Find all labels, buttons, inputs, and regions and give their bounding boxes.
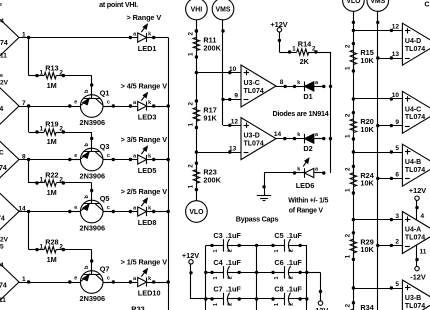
- resistor R29 10K: [344, 231, 374, 261]
- wire: VMS rail right: [377, 11, 379, 310]
- wire: R19 to Q3 base: [63, 132, 91, 134]
- op-amp output pin 8 (left column, partially cut): [0, 139, 26, 179]
- wire: cap row 3 right: [257, 298, 273, 300]
- svg-text:13: 13: [392, 51, 400, 58]
- op-amp U3-B TL074: [402, 280, 430, 310]
- svg-text:2: 2: [59, 69, 63, 76]
- wire: VMS to op-amp pin 9: [376, 124, 379, 127]
- net label VMS: [212, 0, 234, 20]
- wire: op-amp out row 5: [19, 282, 70, 284]
- svg-text:LED10: LED10: [138, 289, 161, 298]
- svg-text:e: e: [74, 276, 77, 282]
- op-amp output pin 1 (left column, partially cut): [0, 17, 26, 57]
- wire: drop to R28: [28, 212, 30, 250]
- svg-text:C: C: [0, 150, 4, 157]
- svg-text:Q7: Q7: [100, 265, 110, 274]
- svg-text:VMS: VMS: [216, 7, 231, 14]
- wire: op-amp out row 2: [19, 106, 70, 108]
- svg-text:.1uF: .1uF: [226, 285, 242, 294]
- resistor R17 91K: [187, 99, 217, 129]
- wire: caps left rail: [205, 245, 207, 310]
- capacitor C7 .1uF: [210, 285, 241, 307]
- svg-text:Q3: Q3: [100, 142, 110, 151]
- svg-text:> 1/5 Range V: > 1/5 Range V: [121, 257, 168, 266]
- svg-text:k: k: [297, 167, 300, 173]
- svg-text:e: e: [0, 73, 3, 79]
- svg-text:TL074: TL074: [244, 88, 264, 95]
- svg-text:C5: C5: [274, 231, 283, 240]
- svg-text:TL074: TL074: [405, 303, 425, 310]
- svg-text:2: 2: [228, 303, 234, 306]
- resistor R20 10K: [344, 111, 374, 141]
- svg-text:-12V: -12V: [313, 306, 329, 310]
- svg-text:1: 1: [40, 177, 44, 184]
- wire: cap row 3 left: [206, 298, 212, 300]
- svg-text:1: 1: [187, 123, 194, 127]
- svg-text:200K: 200K: [203, 43, 221, 52]
- svg-text:2N3906: 2N3906: [80, 171, 106, 180]
- svg-text:U4-A: U4-A: [405, 227, 421, 234]
- wire: op-amp out row 4: [19, 211, 70, 213]
- svg-text:10K: 10K: [360, 179, 374, 188]
- svg-text:TL074: TL074: [405, 167, 425, 174]
- svg-text:U3-D: U3-D: [244, 133, 260, 140]
- svg-text:-12V: -12V: [410, 272, 426, 281]
- wire: cap row 1 left: [206, 245, 212, 247]
- wire: +12V to caps rail: [190, 264, 192, 299]
- wire: op-amp out row 1: [19, 37, 130, 39]
- wire: VMS to U3-D pin 12: [223, 125, 241, 127]
- svg-text:LED5: LED5: [138, 166, 157, 175]
- svg-text:e: e: [74, 100, 77, 106]
- svg-text:TL074: TL074: [405, 114, 425, 121]
- svg-text:2: 2: [344, 167, 351, 171]
- svg-text:C7: C7: [213, 285, 222, 294]
- capacitor C8 .1uF: [271, 285, 302, 307]
- wire: drop to R19: [28, 106, 30, 132]
- op-amp U3-D TL074: [241, 118, 276, 160]
- svg-text:R13: R13: [45, 63, 58, 72]
- svg-text:.1uF: .1uF: [226, 258, 242, 267]
- resistor R34 10K: [344, 301, 356, 310]
- svg-text:LED8: LED8: [138, 218, 157, 227]
- node: D2 junction: [329, 137, 332, 140]
- svg-text:k: k: [297, 80, 300, 86]
- svg-text:> 3/5 Range V: > 3/5 Range V: [121, 135, 168, 144]
- op-amp U4-D TL074: [402, 23, 430, 65]
- svg-text:R19: R19: [45, 120, 58, 129]
- svg-text:VLO: VLO: [346, 0, 361, 5]
- svg-text:2: 2: [59, 126, 63, 133]
- svg-text:2N3906: 2N3906: [80, 118, 106, 127]
- svg-text:.1uF: .1uF: [226, 231, 242, 240]
- svg-text:1M: 1M: [47, 81, 57, 90]
- node: junction to U3-C pin 9: [221, 98, 224, 101]
- wire: U3-D output pin 14: [276, 138, 295, 140]
- svg-text:4: 4: [421, 213, 425, 220]
- svg-text:U4-D: U4-D: [405, 38, 421, 45]
- svg-text:VMS: VMS: [370, 0, 385, 5]
- wire: R28 to Q7 base: [63, 249, 91, 251]
- svg-text:1: 1: [40, 69, 44, 76]
- power terminal +12V middle: [277, 28, 281, 32]
- wire: VLO to op-amp pin 12: [352, 29, 355, 32]
- transistor Q1 2N3906: [68, 83, 115, 127]
- svg-text:12: 12: [392, 24, 400, 31]
- junction dots row 1: [255, 244, 258, 247]
- svg-text:k: k: [148, 205, 151, 211]
- svg-text:9: 9: [395, 119, 399, 126]
- svg-text:> 4/5 Range V: > 4/5 Range V: [121, 81, 168, 90]
- junction dots row 3: [255, 297, 258, 300]
- svg-text:74: 74: [0, 165, 7, 172]
- svg-text:c: c: [107, 153, 110, 159]
- wire: caps middle rail: [256, 245, 258, 310]
- svg-text:11: 11: [0, 53, 7, 60]
- svg-text:11: 11: [420, 249, 427, 256]
- wire: cap row 2 left: [206, 272, 212, 274]
- svg-text:4: 4: [0, 18, 4, 25]
- op-amp U3-C TL074: [241, 65, 276, 107]
- op-amp output pin 1 (left column, partially cut): [0, 262, 26, 302]
- svg-text:5: 5: [395, 145, 399, 152]
- svg-text:TL074: TL074: [405, 234, 425, 241]
- svg-text:7: 7: [22, 100, 26, 107]
- svg-text:1: 1: [187, 185, 194, 189]
- transistor Q7 2N3906: [68, 259, 115, 303]
- svg-text:LED6: LED6: [296, 181, 315, 190]
- svg-text:k: k: [148, 276, 151, 282]
- LED LED5: [129, 146, 157, 175]
- svg-text:1: 1: [40, 126, 44, 133]
- svg-text:Within +/- 1/5: Within +/- 1/5: [288, 198, 328, 205]
- LED LED1: [129, 24, 157, 53]
- svg-text:1: 1: [344, 188, 351, 192]
- op-amp U4-C TL074: [402, 91, 430, 133]
- svg-text:1: 1: [344, 66, 351, 70]
- svg-text:14: 14: [274, 131, 282, 138]
- wire: cap row 2 right: [257, 272, 273, 274]
- svg-text:e: e: [74, 205, 77, 211]
- svg-text:11: 11: [0, 297, 6, 304]
- svg-text:2: 2: [228, 249, 234, 252]
- wire: drop to R22: [28, 160, 30, 184]
- op-amp output pin 14 (left column, partially cut): [0, 191, 26, 231]
- wire: +12V to R14: [279, 32, 281, 52]
- wire: VMS to op-amp pin 2: [376, 244, 379, 247]
- svg-text:VLO: VLO: [189, 209, 204, 216]
- wire: LED to bus row 5: [154, 282, 169, 284]
- transistor Q3 2N3906: [68, 137, 115, 181]
- power terminal +12V caps: [189, 260, 193, 264]
- wire: VLO to op-amp pin 5: [352, 150, 355, 153]
- wire: R13 to Q1 base: [63, 75, 91, 77]
- capacitor C6 .1uF: [271, 258, 302, 280]
- svg-text:e: e: [74, 153, 77, 159]
- wire: VLO to op-amp pin 5: [352, 286, 355, 289]
- wire: VLO to op-amp pin 10: [352, 97, 355, 100]
- wire: Q3 collector to LED: [113, 159, 130, 161]
- svg-text:D1: D1: [303, 92, 312, 101]
- wire: LED to bus row 1: [154, 37, 169, 39]
- resistor R23 200K: [187, 162, 221, 192]
- resistor R13 1M: [35, 63, 65, 90]
- svg-text:1: 1: [187, 52, 194, 56]
- svg-text:2: 2: [344, 233, 351, 237]
- svg-text:.1uF: .1uF: [287, 231, 303, 240]
- svg-text:k: k: [148, 153, 151, 159]
- svg-text:2N3906: 2N3906: [80, 223, 106, 232]
- wire: VMS to op-amp pin 6: [376, 177, 379, 180]
- svg-text:Diodes are 1N914: Diodes are 1N914: [273, 109, 329, 118]
- svg-text:LED3: LED3: [138, 113, 157, 122]
- svg-text:k: k: [148, 31, 151, 37]
- resistor R14 2K: [288, 40, 318, 66]
- wire: LED to bus row 4: [154, 211, 169, 213]
- svg-text:Q1: Q1: [100, 89, 110, 98]
- svg-text:C4: C4: [213, 258, 223, 267]
- wire: R22 to Q5 base: [63, 182, 91, 184]
- svg-text:1M: 1M: [47, 188, 57, 197]
- wire: Q5 collector to LED: [113, 211, 130, 213]
- svg-text:e: e: [0, 2, 2, 8]
- net label VMS: [367, 0, 389, 11]
- svg-text:2: 2: [312, 46, 316, 53]
- ground: [257, 185, 271, 200]
- svg-text:R34: R34: [360, 303, 374, 310]
- resistor R22 1M: [35, 171, 65, 198]
- svg-text:10: 10: [229, 66, 237, 73]
- svg-text:13: 13: [229, 145, 237, 152]
- svg-text:9: 9: [234, 93, 238, 100]
- svg-text:2: 2: [187, 164, 194, 168]
- svg-text:1: 1: [292, 46, 296, 53]
- svg-text:+12V: +12V: [182, 251, 199, 260]
- wire: LED to bus row 2: [154, 106, 169, 108]
- svg-text:.1uF: .1uF: [287, 258, 303, 267]
- svg-text:2: 2: [59, 177, 63, 184]
- wire: U4-A pin 11 to -12V: [416, 245, 418, 267]
- svg-text:R28: R28: [45, 237, 58, 246]
- svg-text:U3-C: U3-C: [244, 80, 260, 87]
- svg-text:1: 1: [344, 134, 351, 138]
- svg-text:74: 74: [0, 216, 5, 223]
- svg-text:Bypass Caps: Bypass Caps: [236, 215, 279, 224]
- svg-text:c: c: [107, 100, 110, 106]
- svg-text:1: 1: [22, 276, 26, 283]
- net label VHI: [186, 0, 208, 20]
- wire: op-amp out row 3: [19, 159, 70, 161]
- svg-text:10: 10: [392, 92, 400, 99]
- LED LED3: [129, 93, 157, 122]
- svg-text:.1uF: .1uF: [287, 285, 303, 294]
- svg-text:5: 5: [395, 281, 399, 288]
- svg-text:c: c: [107, 205, 110, 211]
- svg-text:74: 74: [0, 283, 7, 290]
- svg-text:TL074: TL074: [244, 141, 264, 148]
- svg-text:2V: 2V: [0, 237, 9, 244]
- svg-text:10K: 10K: [360, 245, 374, 254]
- svg-text:2: 2: [228, 276, 234, 279]
- svg-text:5: 5: [0, 244, 4, 251]
- svg-text:6: 6: [395, 172, 399, 179]
- svg-text:4: 4: [0, 262, 4, 269]
- resistor R24 10K: [344, 165, 374, 195]
- svg-text:10K: 10K: [360, 125, 374, 134]
- diode LED6: [293, 167, 326, 190]
- LED LED10: [129, 269, 161, 298]
- svg-text:2: 2: [344, 44, 351, 48]
- svg-text:2: 2: [289, 249, 295, 252]
- node: junction to U3-D pin 13: [195, 150, 198, 153]
- diode D2: [293, 132, 326, 153]
- svg-text:c: c: [107, 276, 110, 282]
- wire: Q7 collector to LED: [113, 282, 130, 284]
- svg-text:C3: C3: [213, 231, 222, 240]
- svg-text:VHI: VHI: [191, 7, 203, 14]
- diode D1: [293, 80, 326, 101]
- svg-text:2: 2: [59, 243, 63, 250]
- power terminal -12V caps: [318, 301, 322, 305]
- svg-text:of Range V: of Range V: [289, 207, 324, 214]
- wire: LED cathode bus: [168, 38, 170, 310]
- wire: drop to R13: [28, 38, 30, 76]
- svg-text:U4-C: U4-C: [405, 106, 421, 113]
- net label VLO: [186, 201, 208, 223]
- svg-text:2: 2: [187, 102, 194, 106]
- svg-text:LED1: LED1: [138, 44, 157, 53]
- svg-text:1: 1: [40, 243, 44, 250]
- svg-text:> Range V: > Range V: [127, 13, 162, 22]
- wire: VLO to op-amp pin 3: [352, 218, 355, 221]
- svg-text:C6: C6: [274, 258, 283, 267]
- svg-text:8: 8: [280, 79, 284, 86]
- svg-text:k: k: [297, 132, 300, 138]
- svg-text:U4-B: U4-B: [405, 159, 421, 166]
- capacitor C3 .1uF: [210, 231, 241, 253]
- svg-text:D2: D2: [303, 144, 312, 153]
- svg-text:1: 1: [344, 254, 351, 258]
- svg-text:Q5: Q5: [100, 194, 110, 203]
- svg-text:R22: R22: [45, 171, 58, 180]
- op-amp U4-A TL074: [402, 212, 430, 254]
- svg-text:C8: C8: [274, 285, 283, 294]
- svg-text:2: 2: [289, 276, 295, 279]
- svg-text:U3-B: U3-B: [405, 295, 421, 302]
- wire: +12V to U4-A pin 4: [416, 200, 418, 220]
- LED6 light arrow: [303, 162, 306, 166]
- capacitor C5 .1uF: [271, 231, 302, 253]
- svg-text:k: k: [148, 100, 151, 106]
- resistor R11 200K: [187, 29, 221, 58]
- svg-text:2: 2: [289, 303, 295, 306]
- svg-text:TL074: TL074: [405, 46, 425, 53]
- wire: VMS to op-amp pin 13: [376, 56, 379, 59]
- svg-text:2: 2: [344, 113, 351, 117]
- node: D1 junction: [329, 85, 332, 88]
- LED LED8: [129, 198, 157, 227]
- svg-text:R33: R33: [131, 305, 144, 310]
- svg-text:2: 2: [187, 32, 194, 36]
- wire: VMS rail: [222, 20, 224, 125]
- wire: right rail to -12V: [307, 272, 321, 274]
- svg-text:C: C: [424, 0, 430, 8]
- svg-text:91K: 91K: [203, 113, 217, 122]
- svg-text:10K: 10K: [360, 56, 374, 65]
- svg-text:2N3906: 2N3906: [80, 294, 106, 303]
- node: junction to U3-C pin 10: [195, 71, 198, 74]
- wire: VLO rail right: [353, 11, 355, 310]
- wire: caps right rail: [306, 245, 308, 310]
- svg-text:> 2/5 Range V: > 2/5 Range V: [121, 187, 168, 196]
- op-amp output pin 7 (left column, partially cut): [0, 86, 26, 126]
- wire: U3-C output pin 8: [276, 86, 295, 88]
- svg-text:2K: 2K: [300, 57, 310, 66]
- net label VLO: [343, 0, 365, 11]
- svg-text:2V: 2V: [0, 80, 9, 87]
- svg-text:3: 3: [395, 213, 399, 220]
- svg-text:2: 2: [344, 303, 351, 307]
- svg-text:1M: 1M: [47, 137, 57, 146]
- svg-text:200K: 200K: [203, 176, 221, 185]
- svg-text:74: 74: [0, 106, 3, 113]
- wire: R14 to diode bus: [316, 52, 331, 54]
- power terminal -12V U4-A pin 11: [415, 266, 419, 270]
- resistor R28 1M: [35, 237, 65, 263]
- wire: cap row 1 right: [257, 245, 273, 247]
- svg-text:at point VHI.: at point VHI.: [99, 0, 138, 9]
- wire: Q1 collector to LED: [113, 106, 130, 108]
- op-amp U4-B TL074: [402, 144, 430, 186]
- svg-text:+12V: +12V: [409, 186, 426, 195]
- wire: VHI rail: [196, 20, 198, 201]
- transistor Q5 2N3906: [68, 189, 115, 233]
- wire: LED to bus row 3: [154, 159, 169, 161]
- svg-text:1M: 1M: [47, 255, 57, 264]
- capacitor C4 .1uF: [210, 258, 241, 280]
- resistor R15 10K: [344, 42, 374, 73]
- svg-text:12: 12: [231, 118, 239, 125]
- svg-text:R14: R14: [298, 40, 312, 49]
- resistor R19 1M: [35, 120, 65, 147]
- svg-text:2: 2: [395, 239, 399, 246]
- junction dots row 2: [255, 271, 258, 274]
- svg-text:74: 74: [0, 40, 8, 47]
- wire: LED6 cathode to ground: [264, 172, 295, 174]
